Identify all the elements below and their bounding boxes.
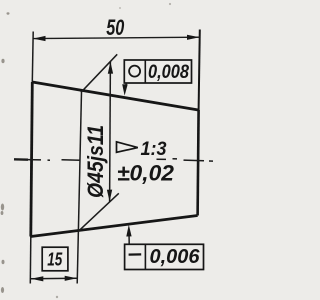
svg-text:Ø45js11: Ø45js11 [83,125,108,198]
dimension line 15 [31,277,77,280]
left face edge of cone (thick) with extension line for 50 above and for 15 below [31,32,34,83]
straightness symbol [129,253,142,255]
svg-text:50: 50 [106,15,124,40]
circularity tolerance frame [124,60,191,83]
straightness tolerance frame [125,244,204,269]
circularity symbol [129,66,140,77]
cone right edge [198,110,199,216]
arrow right of dimension 50 [187,35,200,40]
straightness leader arrow [126,225,131,237]
oblique extension line (bottom) for diameter 45 [78,193,119,232]
svg-text:0,006: 0,006 [150,246,201,268]
paper specks [1,3,171,298]
arrow up of diameter dimension [108,62,113,74]
circularity leader arrow [122,84,128,95]
circularity frame divider [144,60,146,83]
arrow left of dimension 50 [33,36,46,41]
oblique extension line (top) for diameter 45 [81,54,117,92]
arrow left of dimension 15 [31,276,43,281]
right face extension line for 50 [199,30,200,111]
extension line for 15 (left) [29,237,32,284]
cone left edge [31,82,33,237]
circularity leader line [125,83,126,90]
dimension line 50 [33,37,200,38]
centerline (dash-dot axis) [14,159,213,161]
taper symbol triangle [117,142,138,153]
cone top edge [32,82,198,110]
straightness leader line [128,232,130,244]
svg-text:1:3: 1:3 [141,138,167,160]
section line at measured diameter [77,92,81,284]
arrow down of diameter dimension [107,190,112,202]
cone bottom edge [31,216,198,237]
straightness frame divider [144,244,146,269]
svg-text:0,008: 0,008 [148,61,189,83]
paper background [0,0,233,300]
reference dimension box 15 [42,247,68,271]
svg-text:±0,02: ±0,02 [117,161,175,186]
arrow right of dimension 15 [65,276,77,281]
dimension line for diameter 45 [109,62,112,202]
svg-text:15: 15 [47,249,63,270]
